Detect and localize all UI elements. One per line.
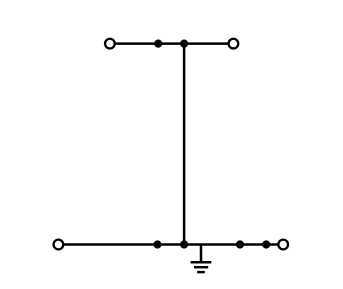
junction dot (bottom rail, right inner): [236, 240, 244, 248]
wire: top rail: [110, 42, 233, 45]
junction dot (bottom rail at vertical bus): [180, 240, 188, 248]
terminal circle (bottom left): [54, 240, 64, 250]
ground symbol bar 2: [194, 266, 208, 269]
terminal circle (top left): [105, 39, 115, 49]
junction dot (top rail at vertical bus): [180, 40, 188, 48]
wire: vertical bus: [183, 44, 186, 245]
terminal circle (bottom right): [278, 240, 288, 250]
ground symbol bar 3: [197, 271, 205, 274]
wire: bottom rail: [58, 243, 283, 246]
junction dot (bottom rail, right outer): [262, 240, 270, 248]
junction dot (bottom rail, left): [153, 240, 161, 248]
terminal circle (top right): [229, 39, 239, 49]
ground symbol bar 1: [191, 261, 212, 264]
wire: ground stub: [200, 245, 203, 263]
junction dot (top rail, left): [154, 40, 162, 48]
